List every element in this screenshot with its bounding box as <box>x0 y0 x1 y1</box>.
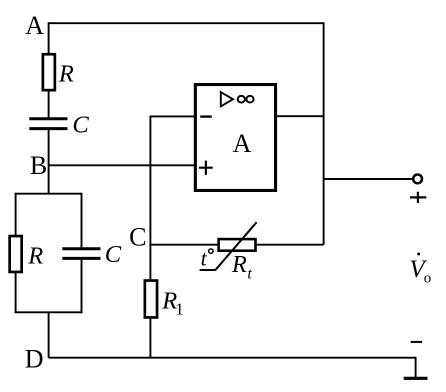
op-amp non-inverting input plus sign <box>199 161 213 175</box>
svg-text:C: C <box>72 112 89 139</box>
capacitor C (series arm) plates <box>29 117 67 120</box>
wire R1 to bottom rail <box>149 318 151 358</box>
svg-text:R: R <box>58 61 74 88</box>
wire node C down to R1 <box>149 245 151 280</box>
wire parallel network to node D rail <box>48 312 50 357</box>
wire parallel right branch upper <box>81 193 83 249</box>
svg-text:A: A <box>233 129 252 158</box>
thermistor Rt body <box>219 239 256 251</box>
wire right vertical feedback bus <box>323 22 325 244</box>
svg-text:o: o <box>424 270 432 286</box>
wire op-amp output <box>277 115 324 117</box>
svg-text:R: R <box>231 251 247 278</box>
output plus sign <box>410 192 426 203</box>
thermistor temperature arrow <box>200 222 257 270</box>
wire parallel network bottom <box>15 311 83 313</box>
svg-text:D: D <box>25 345 44 374</box>
svg-text:B: B <box>30 151 47 180</box>
op-amp infinity symbol <box>238 96 245 103</box>
wire parallel left branch lower <box>15 273 17 313</box>
svg-text:1: 1 <box>175 300 184 319</box>
svg-text:C: C <box>105 241 122 268</box>
svg-text:t: t <box>247 265 252 282</box>
wire bottom rail node D to ground <box>49 357 416 359</box>
wire ground drop <box>415 357 417 377</box>
wire parallel network top <box>15 193 83 195</box>
capacitor C (parallel arm) plates <box>62 247 100 250</box>
wire node A down to resistor R <box>48 22 50 54</box>
resistor R (series arm) <box>43 54 55 90</box>
wire node C to thermistor <box>150 244 218 246</box>
wire op-amp inverting input <box>150 115 195 117</box>
wire resistor R to capacitor C <box>48 91 50 119</box>
svg-text:R: R <box>27 243 43 270</box>
wire parallel right branch lower <box>81 258 83 313</box>
output terminal circle <box>413 175 422 184</box>
wire parallel left branch upper <box>15 193 17 235</box>
output minus sign <box>411 341 422 343</box>
wire feedback bus to output terminal <box>324 178 413 180</box>
wire top horizontal from A to right feedback bus <box>49 22 324 24</box>
wire thermistor to feedback bus <box>257 244 324 246</box>
wire node B to op-amp non-inverting input <box>49 164 195 166</box>
resistor R (parallel arm) <box>10 236 22 272</box>
svg-text:C: C <box>129 223 146 252</box>
op-amp gain triangle <box>221 92 233 106</box>
svg-text:A: A <box>25 11 44 40</box>
op-amp U1 box <box>195 85 275 191</box>
wire inverting input down to node C <box>149 116 151 245</box>
derivative dot over V <box>417 253 420 256</box>
wire capacitor C down through node B to parallel network <box>48 129 50 194</box>
op-amp inverting input minus sign <box>200 115 212 117</box>
svg-text:t: t <box>201 246 208 271</box>
ground symbol bar <box>404 377 428 380</box>
resistor R1 <box>145 281 157 318</box>
